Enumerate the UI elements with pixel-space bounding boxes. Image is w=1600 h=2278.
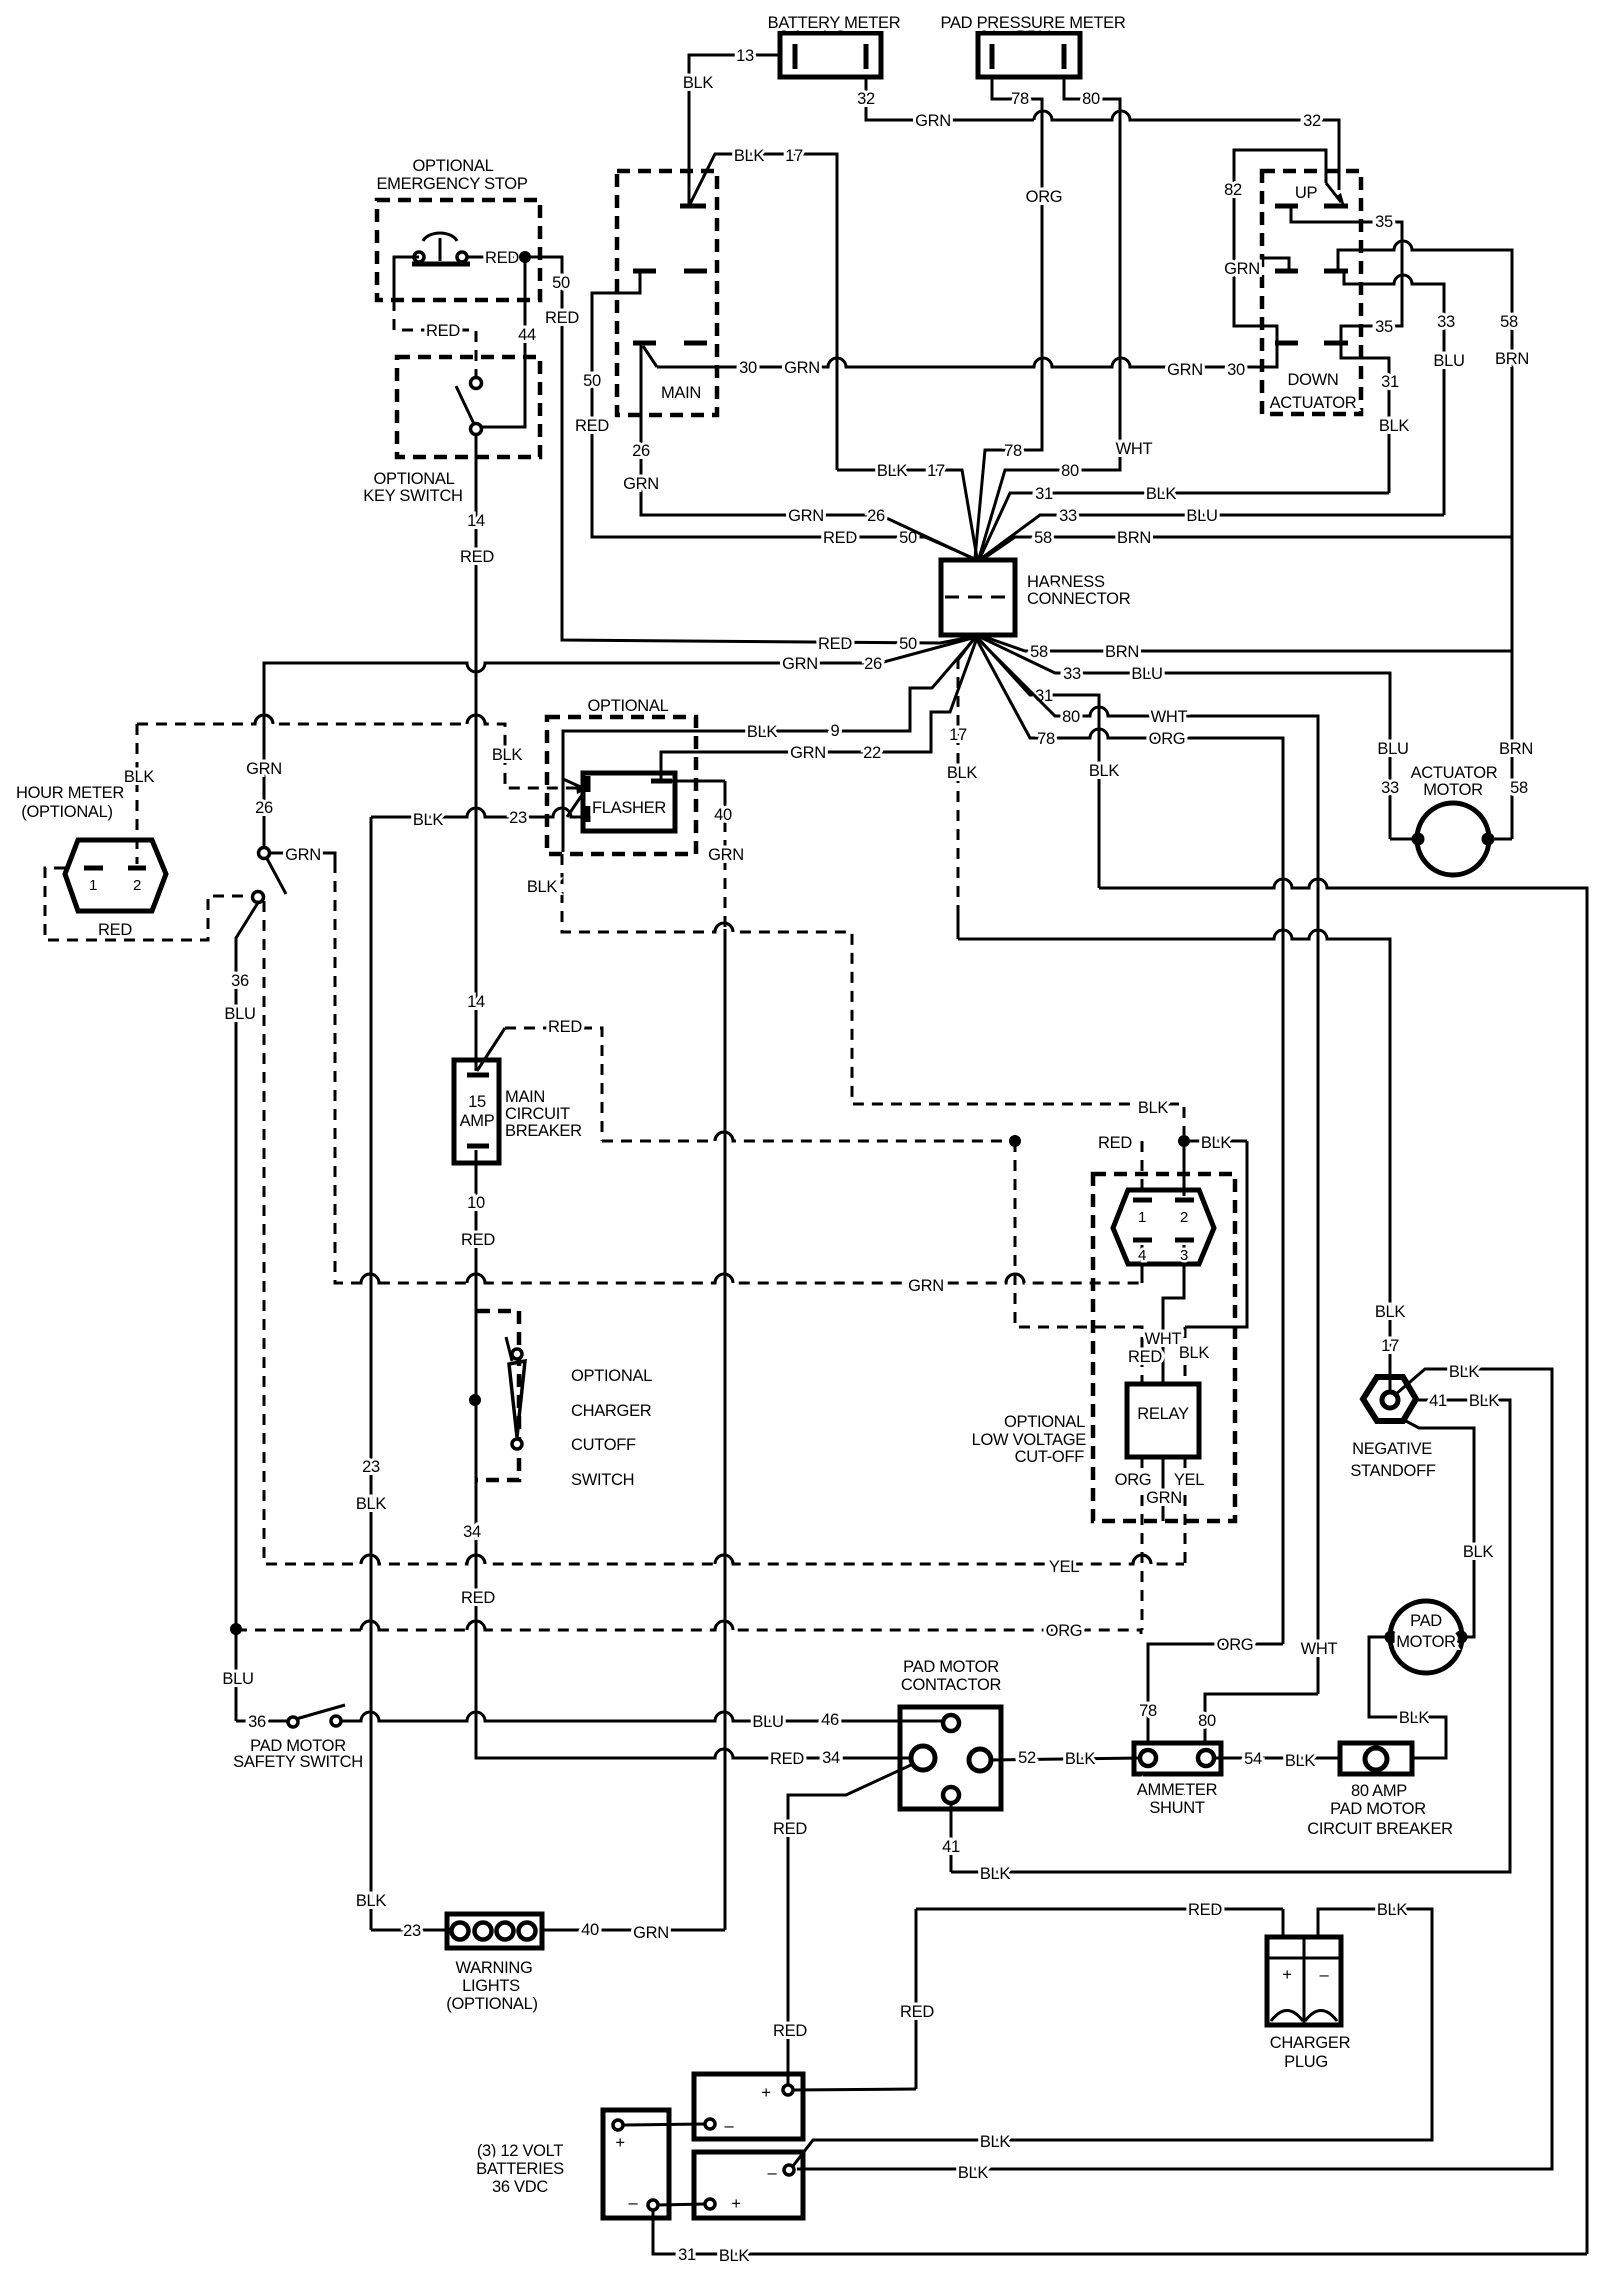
svg-text:HARNESS: HARNESS <box>1027 573 1105 591</box>
down actuator dashed box <box>1262 171 1361 414</box>
wire battery1 to battery3 <box>658 2204 705 2205</box>
svg-text:+: + <box>615 2134 624 2152</box>
svg-text:GRN: GRN <box>782 655 818 673</box>
svg-text:33: 33 <box>1063 665 1081 683</box>
svg-text:RED: RED <box>461 1231 495 1249</box>
svg-text:BLU: BLU <box>1186 507 1217 525</box>
svg-text:BRN: BRN <box>1105 643 1139 661</box>
svg-text:36 VDC: 36 VDC <box>492 2178 548 2196</box>
main contact 2 <box>633 269 707 274</box>
svg-text:WHT: WHT <box>1151 708 1188 726</box>
svg-text:58: 58 <box>1034 529 1052 547</box>
negative standoff NS1 <box>1350 1377 1436 1480</box>
svg-text:14: 14 <box>467 512 485 530</box>
svg-text:BREAKER: BREAKER <box>505 1122 582 1140</box>
svg-text:ACTUATOR: ACTUATOR <box>1270 394 1357 412</box>
svg-text:LIGHTS: LIGHTS <box>462 1977 520 1995</box>
wire 22 GRN flasher to harness <box>661 638 977 781</box>
svg-text:50: 50 <box>552 274 570 292</box>
svg-text:26: 26 <box>255 799 273 817</box>
svg-text:(3) 12 VOLT: (3) 12 VOLT <box>477 2142 563 2160</box>
svg-text:BLK: BLK <box>719 2247 750 2265</box>
svg-text:1: 1 <box>89 877 97 894</box>
svg-text:13: 13 <box>736 47 754 65</box>
svg-text:33: 33 <box>1381 779 1399 797</box>
wire pin4 GRN <box>1141 1245 1144 1283</box>
charger plug CP1 <box>1267 1937 1351 2071</box>
svg-text:MAIN: MAIN <box>505 1088 545 1106</box>
svg-text:BLK: BLK <box>356 1892 387 1910</box>
wire hop arcs on dashed wires <box>255 715 1151 1630</box>
node junction estop <box>519 251 531 263</box>
svg-text:GRN: GRN <box>788 507 824 525</box>
batteries label <box>476 2142 564 2196</box>
svg-text:40: 40 <box>714 806 732 824</box>
svg-text:3: 3 <box>1180 1247 1188 1264</box>
wire 31 BLK harness to actuator <box>980 485 1389 558</box>
battery B1 <box>603 2110 669 2218</box>
charger cutoff dashed box <box>477 1311 519 1480</box>
svg-text:BLK: BLK <box>1379 417 1410 435</box>
wire RED dashed to relay <box>1015 1141 1142 1384</box>
svg-text:23: 23 <box>509 809 527 827</box>
svg-text:PAD MOTOR: PAD MOTOR <box>1330 1800 1426 1818</box>
svg-text:YEL: YEL <box>1049 1558 1079 1576</box>
wire 50 RED estop to harness lower <box>525 257 977 653</box>
svg-text:ORG: ORG <box>1217 1636 1254 1654</box>
svg-text:BLK: BLK <box>1179 1344 1210 1362</box>
wire 30 GRN main contact3 to actuator <box>643 345 1277 379</box>
svg-text:4: 4 <box>1138 1247 1146 1264</box>
svg-text:41: 41 <box>942 1838 960 1856</box>
svg-text:34: 34 <box>463 1523 481 1541</box>
svg-text:GRN: GRN <box>633 1924 669 1942</box>
wire 78 ORG pad meter to harness <box>975 77 1062 558</box>
svg-text:40: 40 <box>581 1921 599 1939</box>
wire GRN switch to relay net dashed <box>269 846 1142 1295</box>
flasher F1 <box>583 773 675 831</box>
pad pressure meter PM1 <box>941 14 1126 77</box>
wire 17 BLK from main contact <box>690 147 837 470</box>
svg-text:OPTIONAL: OPTIONAL <box>373 470 454 488</box>
svg-text:31: 31 <box>1035 687 1053 705</box>
harness connector J1 <box>941 560 1131 635</box>
flasher optional dashed box <box>547 697 696 854</box>
wire BLK hour meter pin2 dashed <box>124 715 578 864</box>
svg-text:RED: RED <box>461 1589 495 1607</box>
svg-text:30: 30 <box>1227 361 1245 379</box>
wire 82 actuator loop <box>1224 150 1326 341</box>
wire RED battery2 to contactor feed <box>793 2089 916 2090</box>
svg-text:STANDOFF: STANDOFF <box>1350 1462 1436 1480</box>
actuator contact row1 <box>1275 204 1348 209</box>
svg-text:OPTIONAL: OPTIONAL <box>571 1367 652 1385</box>
svg-text:(OPTIONAL): (OPTIONAL) <box>446 1995 537 2013</box>
wire 40 GRN flasher to warning lights <box>672 781 744 1930</box>
charger cutoff switch SW4 <box>506 1337 652 1489</box>
low voltage cutoff dashed box <box>972 1174 1235 1521</box>
node relay RED junction <box>1009 1135 1021 1147</box>
pad motor safety switch SW5 <box>233 1705 363 1771</box>
node relay BLK junction <box>1178 1135 1190 1147</box>
actuator contact row3 <box>1275 341 1348 346</box>
svg-text:36: 36 <box>248 1713 266 1731</box>
svg-text:ORG: ORG <box>1026 188 1063 206</box>
svg-text:RED: RED <box>900 2003 934 2021</box>
svg-text:AMMETER: AMMETER <box>1137 1781 1218 1799</box>
wire ORG dashed node to relay <box>236 1621 1141 1640</box>
svg-text:RED: RED <box>770 1750 804 1768</box>
svg-text:MAIN: MAIN <box>661 384 701 402</box>
svg-text:MOTOR: MOTOR <box>1396 1633 1456 1651</box>
svg-text:17: 17 <box>785 147 803 165</box>
svg-text:GRN: GRN <box>623 475 659 493</box>
svg-text:10: 10 <box>467 1194 485 1212</box>
svg-text:BLK: BLK <box>1399 1709 1430 1727</box>
low voltage plug hexagon P1 <box>1113 1190 1214 1264</box>
wire 41 BLK standoff to contactor <box>951 1392 1510 1883</box>
wire 46 BLU safety switch to contactor <box>341 1711 944 1731</box>
svg-text:33: 33 <box>1437 313 1455 331</box>
svg-text:CIRCUIT BREAKER: CIRCUIT BREAKER <box>1307 1820 1453 1838</box>
svg-text:CONNECTOR: CONNECTOR <box>1027 590 1131 608</box>
svg-text:SAFETY SWITCH: SAFETY SWITCH <box>233 1753 363 1771</box>
pad motor contactor CT1 <box>900 1658 1002 1809</box>
svg-text:BLK: BLK <box>980 2133 1011 2151</box>
svg-text:78: 78 <box>1037 730 1055 748</box>
wire BLK charger plug to battery3 <box>793 1901 1432 2166</box>
svg-text:RED: RED <box>1098 1134 1132 1152</box>
svg-text:BLK: BLK <box>747 723 778 741</box>
svg-text:WHT: WHT <box>1301 1640 1338 1658</box>
svg-text:GRN: GRN <box>1167 361 1203 379</box>
svg-text:BLK: BLK <box>356 1495 387 1513</box>
svg-text:GRN: GRN <box>285 846 321 864</box>
svg-text:50: 50 <box>899 635 917 653</box>
relay K1 <box>1127 1384 1199 1457</box>
wire pin2 BLK <box>1183 1141 1186 1196</box>
svg-text:BLK: BLK <box>124 768 155 786</box>
svg-text:PLUG: PLUG <box>1284 2053 1328 2071</box>
svg-text:32: 32 <box>857 90 875 108</box>
svg-text:80: 80 <box>1198 1712 1216 1730</box>
svg-text:BLU: BLU <box>1433 352 1464 370</box>
main circuit breaker CB1 <box>454 1060 582 1163</box>
svg-text:31: 31 <box>1381 373 1399 391</box>
svg-text:46: 46 <box>821 1711 839 1729</box>
node BLU ORG junction <box>230 1623 242 1635</box>
wire 31 BLK battery1 to ground rail <box>653 2210 1587 2265</box>
svg-text:26: 26 <box>864 655 882 673</box>
svg-text:(OPTIONAL): (OPTIONAL) <box>21 803 112 821</box>
svg-text:DOWN: DOWN <box>1287 371 1338 389</box>
svg-text:80: 80 <box>1082 90 1100 108</box>
svg-text:–: – <box>1320 1966 1330 1984</box>
wire 31 BLK actuator row3 down <box>1341 345 1409 493</box>
svg-text:CONTACTOR: CONTACTOR <box>901 1676 1002 1694</box>
wire BLK 17 to negative standoff <box>958 930 1405 1392</box>
svg-text:RED: RED <box>548 1018 582 1036</box>
svg-text:BLK: BLK <box>1201 1134 1232 1152</box>
emergency stop dashed box <box>376 157 540 300</box>
svg-text:RED: RED <box>1188 1901 1222 1919</box>
svg-text:GRN: GRN <box>1146 1489 1182 1507</box>
svg-text:80: 80 <box>1062 708 1080 726</box>
svg-text:54: 54 <box>1244 1750 1262 1768</box>
svg-text:SWITCH: SWITCH <box>571 1471 634 1489</box>
svg-text:78: 78 <box>1011 90 1029 108</box>
svg-text:BLU: BLU <box>1377 740 1408 758</box>
svg-text:GRN: GRN <box>908 1277 944 1295</box>
wire GRN stub actuator row2 <box>1224 258 1289 278</box>
node charger cutoff junction <box>469 1394 481 1406</box>
svg-text:BLK: BLK <box>947 764 978 782</box>
wire pin1 RED dashed <box>1141 1141 1144 1196</box>
wire 10 RED 34 breaker down to contactor <box>461 1150 912 1768</box>
hour meter HM1 <box>16 784 166 911</box>
svg-text:22: 22 <box>863 744 881 762</box>
svg-text:BLK: BLK <box>413 811 444 829</box>
svg-text:34: 34 <box>822 1749 840 1767</box>
svg-text:CHARGER: CHARGER <box>571 1402 652 1420</box>
battery B2 <box>694 2074 803 2139</box>
svg-text:35: 35 <box>1375 213 1393 231</box>
wire 31 BLK ground rail right <box>1099 879 1587 2254</box>
svg-text:26: 26 <box>867 507 885 525</box>
svg-text:BLK: BLK <box>1285 1752 1316 1770</box>
wire pin3 WHT to relay <box>1163 1245 1184 1384</box>
wire RED dashed breaker to relay net <box>477 1018 1132 1152</box>
svg-text:–: – <box>768 2164 778 2182</box>
svg-text:RED: RED <box>773 2022 807 2040</box>
svg-text:36: 36 <box>231 972 249 990</box>
wire 58 BRN actuator row2 to motor rail <box>1338 241 1533 839</box>
svg-text:78: 78 <box>1139 1702 1157 1720</box>
svg-text:RED: RED <box>485 249 519 267</box>
wire RED estop left leg to key switch <box>394 257 476 377</box>
svg-text:35: 35 <box>1375 318 1393 336</box>
svg-text:1: 1 <box>1138 1209 1146 1226</box>
svg-text:15: 15 <box>468 1093 486 1111</box>
svg-text:BLK: BLK <box>492 746 523 764</box>
svg-text:NEGATIVE: NEGATIVE <box>1352 1440 1432 1458</box>
wire RED battery2 to charger plug <box>900 1901 1283 2089</box>
svg-text:–: – <box>629 2194 639 2212</box>
svg-text:RELAY: RELAY <box>1137 1405 1189 1423</box>
wire BLK pad motor to 80A breaker <box>1369 1637 1446 1758</box>
svg-text:32: 32 <box>1303 112 1321 130</box>
svg-text:BLK: BLK <box>1449 1363 1480 1381</box>
svg-text:KEY SWITCH: KEY SWITCH <box>363 487 462 505</box>
svg-text:BLK: BLK <box>527 878 558 896</box>
hour meter switch SW3 <box>253 848 287 903</box>
wire 54 BLK shunt to breaker <box>1214 1750 1340 1770</box>
svg-text:PAD MOTOR: PAD MOTOR <box>903 1658 999 1676</box>
svg-text:17: 17 <box>1381 1337 1399 1355</box>
svg-text:14: 14 <box>467 993 485 1011</box>
svg-text:OPTIONAL: OPTIONAL <box>412 157 493 175</box>
svg-text:26: 26 <box>632 442 650 460</box>
svg-text:CUT-OFF: CUT-OFF <box>1015 1448 1085 1466</box>
svg-text:RED: RED <box>1128 1348 1162 1366</box>
wire BRN rail to motor <box>1488 838 1512 841</box>
wire 9 BLK flasher to harness <box>563 637 976 788</box>
wire BLU to motor <box>1390 838 1418 841</box>
svg-text:23: 23 <box>362 1458 380 1476</box>
svg-text:BRN: BRN <box>1117 529 1151 547</box>
emergency stop pushbutton SW1 <box>412 233 470 264</box>
wire BLK dot label <box>1190 1134 1247 1152</box>
wire BLK flasher return dashed <box>527 731 1184 1135</box>
svg-text:RED: RED <box>575 417 609 435</box>
svg-text:BLK: BLK <box>1138 1099 1169 1117</box>
svg-text:GRN: GRN <box>915 112 951 130</box>
svg-text:+: + <box>1282 1966 1291 1984</box>
svg-text:WHT: WHT <box>1145 1330 1182 1348</box>
svg-text:BLK: BLK <box>877 462 908 480</box>
svg-text:82: 82 <box>1224 181 1242 199</box>
svg-text:ACTUATOR: ACTUATOR <box>1411 764 1498 782</box>
battery meter BM1 <box>768 14 901 77</box>
svg-text:GRN: GRN <box>708 846 744 864</box>
svg-text:CIRCUIT: CIRCUIT <box>505 1105 570 1123</box>
svg-text:RED: RED <box>818 635 852 653</box>
svg-text:+: + <box>761 2084 770 2102</box>
svg-text:EMERGENCY STOP: EMERGENCY STOP <box>376 175 527 193</box>
svg-text:FLASHER: FLASHER <box>592 799 666 817</box>
svg-text:+: + <box>731 2195 740 2213</box>
svg-text:CUTOFF: CUTOFF <box>571 1436 636 1454</box>
svg-text:YEL: YEL <box>1174 1471 1204 1489</box>
svg-text:PAD: PAD <box>1410 1612 1442 1630</box>
svg-text:MOTOR: MOTOR <box>1423 781 1483 799</box>
wire GRN 26 harness to hourmeter switch <box>246 637 976 848</box>
relay pin labels <box>1128 1330 1209 1366</box>
wire RED estop to node <box>467 249 520 267</box>
svg-text:31: 31 <box>1035 485 1053 503</box>
svg-text:BLK: BLK <box>980 1865 1011 1883</box>
svg-text:BRN: BRN <box>1499 740 1533 758</box>
pin labels P1 <box>1138 1209 1188 1264</box>
svg-text:2: 2 <box>133 877 141 894</box>
svg-text:BLK: BLK <box>1469 1392 1500 1410</box>
wire RED hour meter pin1 dashed <box>45 868 251 940</box>
svg-text:GRN: GRN <box>790 744 826 762</box>
wire RED contactor to battery2 <box>773 1764 913 2086</box>
svg-text:BLU: BLU <box>752 1713 783 1731</box>
wire 44 estop to key switch <box>481 257 536 427</box>
svg-text:BLK: BLK <box>1089 762 1120 780</box>
wire BLK standoff to pad motor <box>1404 1420 1493 1637</box>
wire 23 BLK flasher to warning lights <box>356 785 587 1930</box>
svg-text:RED: RED <box>460 548 494 566</box>
key switch dashed box <box>363 357 540 505</box>
wire 50 RED main contact2 to harness <box>575 273 975 559</box>
svg-text:UP: UP <box>1295 184 1318 202</box>
svg-text:BLU: BLU <box>224 1005 255 1023</box>
svg-text:BLK: BLK <box>734 147 765 165</box>
svg-text:RED: RED <box>823 529 857 547</box>
svg-text:58: 58 <box>1510 779 1528 797</box>
main contact 3 <box>633 341 707 346</box>
wire 36 BLU switch to safety switch <box>222 901 259 1718</box>
wire 35 actuator row1 to row3 <box>1291 208 1402 341</box>
actuator contact row2 <box>1275 269 1348 274</box>
wire 13 BLK battery meter to main <box>683 47 780 204</box>
wire 41 contactor coil down <box>942 1803 960 1872</box>
svg-text:GRN: GRN <box>1224 260 1260 278</box>
svg-text:ORG: ORG <box>1149 730 1186 748</box>
svg-text:LOW VOLTAGE: LOW VOLTAGE <box>972 1431 1087 1449</box>
wire YEL dashed switch to relay <box>264 901 1184 1576</box>
svg-text:BLK: BLK <box>1375 1303 1406 1321</box>
svg-text:OPTIONAL: OPTIONAL <box>1004 1413 1085 1431</box>
svg-text:52: 52 <box>1018 1749 1036 1767</box>
wire 14 RED key switch down to breaker <box>460 434 494 1071</box>
wire 80 WHT pad meter to harness <box>979 77 1153 558</box>
wire 26 GRN main to harness <box>623 345 972 558</box>
svg-text:31: 31 <box>678 2246 696 2264</box>
wire 78 ORG harness below <box>976 638 1283 1644</box>
svg-text:17: 17 <box>949 726 967 744</box>
svg-text:BLK: BLK <box>1463 1543 1494 1561</box>
svg-text:BATTERY METER: BATTERY METER <box>768 14 901 32</box>
wire 17 BLK into harness top <box>837 462 977 558</box>
wire BLK to relay <box>1185 1141 1247 1384</box>
svg-text:50: 50 <box>583 372 601 390</box>
svg-text:BLU: BLU <box>222 1670 253 1688</box>
ammeter shunt SH1 <box>1134 1743 1221 1817</box>
wire 23 warning lights left <box>371 1922 447 1940</box>
svg-text:CHARGER: CHARGER <box>1270 2034 1351 2052</box>
svg-text:RED: RED <box>426 322 460 340</box>
svg-text:23: 23 <box>403 1922 421 1940</box>
svg-text:58: 58 <box>1030 643 1048 661</box>
wire 17 BLK harness below dashed <box>947 637 978 939</box>
wire 33 BLU harness below to motor <box>980 637 1409 839</box>
svg-text:GRN: GRN <box>246 760 282 778</box>
80 amp pad motor circuit breaker CB2 <box>1307 1743 1453 1838</box>
svg-text:AMP: AMP <box>460 1112 495 1130</box>
svg-text:80: 80 <box>1061 462 1079 480</box>
wire 32 GRN battery meter to actuator <box>857 77 1345 207</box>
warning lights WL1 <box>446 1914 542 2013</box>
svg-text:30: 30 <box>739 359 757 377</box>
wire 52 BLK contactor to shunt <box>991 1749 1141 1768</box>
svg-text:58: 58 <box>1500 313 1518 331</box>
wire ORG relay down dashed <box>1115 1457 1152 1630</box>
svg-text:RED: RED <box>773 1820 807 1838</box>
svg-text:ORG: ORG <box>1115 1471 1152 1489</box>
svg-text:BRN: BRN <box>1495 350 1529 368</box>
wire 33 BLU actuator row2 down <box>1344 271 1465 515</box>
svg-text:BATTERIES: BATTERIES <box>476 2160 564 2178</box>
svg-text:WARNING: WARNING <box>455 1959 532 1977</box>
svg-text:BLK: BLK <box>683 74 714 92</box>
wire battery1 to battery2 <box>623 2124 705 2125</box>
actuator motor M1 <box>1411 764 1498 875</box>
svg-text:44: 44 <box>518 326 536 344</box>
wire BLK standoff top to battery3 <box>797 1363 1552 2182</box>
svg-text:41: 41 <box>1429 1392 1447 1410</box>
svg-text:78: 78 <box>1004 442 1022 460</box>
svg-text:–: – <box>725 2117 735 2135</box>
wire 80 WHT harness below <box>977 638 1338 1694</box>
wire 58 BRN harness below to rail <box>982 636 1512 661</box>
svg-text:BLK: BLK <box>1146 485 1177 503</box>
wire 40 GRN warning lights right <box>542 1921 725 1942</box>
svg-text:33: 33 <box>1059 507 1077 525</box>
